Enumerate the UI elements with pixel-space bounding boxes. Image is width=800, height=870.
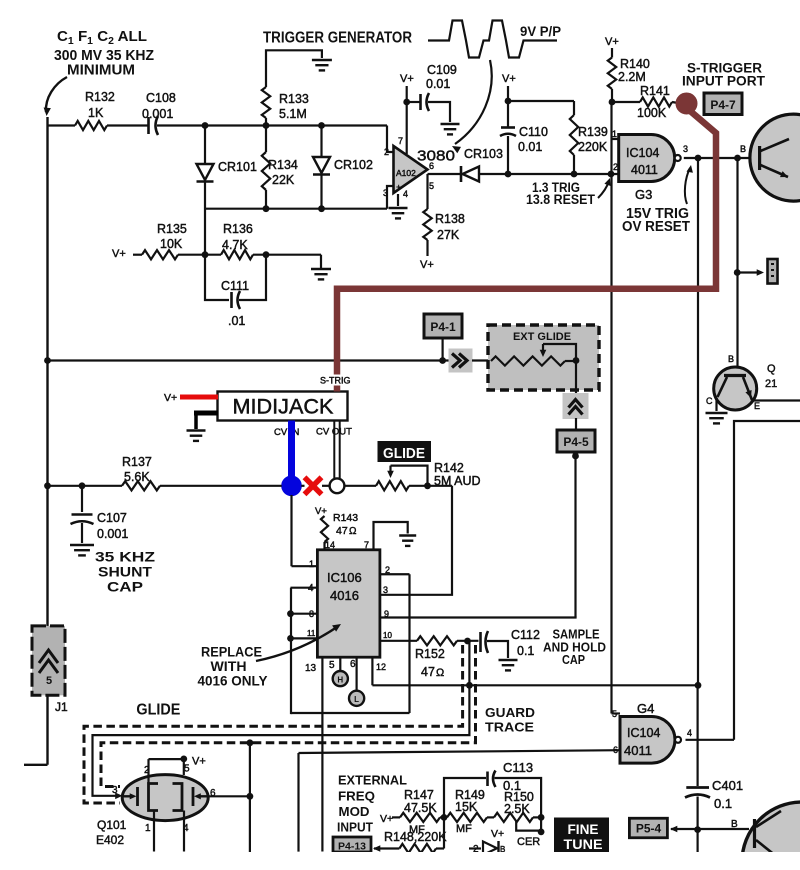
svg-text:EXT GLIDE: EXT GLIDE — [513, 331, 571, 343]
svg-text:CR103: CR103 — [464, 147, 503, 161]
svg-text:+: + — [396, 182, 401, 192]
svg-text:0.1: 0.1 — [714, 796, 732, 811]
svg-text:9V P/P: 9V P/P — [520, 24, 561, 39]
svg-text:Ω: Ω — [349, 526, 357, 537]
svg-text:FINE: FINE — [568, 822, 599, 837]
svg-text:V+: V+ — [192, 756, 206, 768]
svg-text:3080: 3080 — [417, 148, 455, 165]
svg-text:CER: CER — [517, 836, 540, 848]
svg-text:0.001: 0.001 — [97, 527, 128, 541]
svg-text:2.2M: 2.2M — [618, 70, 646, 84]
svg-text:5: 5 — [184, 764, 190, 775]
svg-text:3: 3 — [383, 585, 388, 595]
svg-text:E: E — [754, 401, 760, 411]
svg-text:E402: E402 — [96, 833, 124, 847]
svg-text:P4-1: P4-1 — [430, 320, 456, 334]
svg-text:R137: R137 — [122, 455, 152, 469]
svg-text:R141: R141 — [640, 84, 670, 98]
svg-text:C107: C107 — [97, 511, 127, 525]
svg-text:.01: .01 — [228, 314, 245, 328]
svg-text:1: 1 — [612, 129, 617, 139]
svg-text:3: 3 — [383, 188, 388, 198]
svg-text:3: 3 — [112, 785, 118, 796]
svg-text:15K: 15K — [455, 800, 478, 814]
svg-text:4011: 4011 — [631, 163, 658, 177]
svg-text:MIDIJACK: MIDIJACK — [233, 396, 334, 419]
svg-text:R148,220K: R148,220K — [384, 830, 447, 844]
svg-text:13: 13 — [305, 663, 317, 674]
svg-text:V+: V+ — [112, 248, 126, 260]
svg-text:CR101: CR101 — [218, 160, 257, 174]
svg-text:0.001: 0.001 — [142, 107, 173, 121]
svg-text:WITH: WITH — [211, 659, 247, 674]
svg-text:R134: R134 — [268, 158, 298, 172]
svg-text:47: 47 — [336, 525, 348, 537]
svg-text:V+: V+ — [420, 259, 434, 271]
svg-text:R143: R143 — [333, 512, 358, 524]
svg-text:4: 4 — [403, 189, 408, 199]
svg-text:C111: C111 — [221, 279, 249, 293]
svg-text:CR102: CR102 — [334, 158, 373, 172]
svg-text:B: B — [740, 144, 746, 154]
svg-text:47.5K: 47.5K — [404, 801, 437, 815]
svg-text:GUARD: GUARD — [485, 705, 535, 720]
svg-text:4016 ONLY: 4016 ONLY — [198, 674, 268, 689]
svg-text:R135: R135 — [157, 222, 187, 236]
svg-text:V+: V+ — [605, 36, 619, 48]
svg-text:SHUNT: SHUNT — [98, 564, 152, 580]
svg-text:21: 21 — [765, 378, 777, 390]
svg-text:P4-13: P4-13 — [338, 841, 366, 853]
svg-text:Q101: Q101 — [97, 818, 127, 832]
svg-text:P4-7: P4-7 — [710, 98, 736, 112]
svg-text:5: 5 — [429, 181, 434, 191]
svg-text:10: 10 — [383, 631, 392, 640]
svg-text:4: 4 — [687, 728, 692, 738]
svg-text:1K: 1K — [88, 106, 104, 120]
svg-text:R140: R140 — [620, 57, 650, 71]
svg-text:P4-5: P4-5 — [563, 435, 589, 449]
svg-text:R133: R133 — [279, 92, 309, 106]
svg-text:Ω: Ω — [436, 667, 444, 679]
svg-text:4011: 4011 — [624, 743, 652, 758]
svg-text:MINIMUM: MINIMUM — [67, 63, 135, 79]
svg-text:V+: V+ — [491, 828, 504, 840]
svg-text:C108: C108 — [146, 91, 176, 105]
svg-text:5: 5 — [329, 660, 335, 671]
svg-text:V+: V+ — [502, 73, 516, 85]
svg-text:L: L — [354, 695, 359, 704]
svg-text:H: H — [337, 676, 343, 685]
svg-text:4016: 4016 — [330, 588, 359, 603]
svg-text:4: 4 — [183, 823, 189, 834]
svg-text:100K: 100K — [637, 106, 667, 120]
svg-text:R139: R139 — [578, 125, 608, 139]
svg-text:R136: R136 — [223, 222, 253, 236]
svg-text:22K: 22K — [272, 173, 295, 187]
svg-text:2: 2 — [144, 765, 150, 776]
svg-text:REPLACE: REPLACE — [201, 645, 262, 660]
svg-text:B: B — [731, 819, 738, 830]
svg-text:6: 6 — [613, 745, 618, 755]
svg-text:IC104: IC104 — [627, 726, 660, 740]
svg-text:C113: C113 — [503, 760, 533, 775]
svg-text:G3: G3 — [635, 187, 652, 202]
svg-text:C109: C109 — [427, 63, 457, 77]
svg-text:3: 3 — [683, 144, 688, 154]
svg-text:C110: C110 — [519, 125, 548, 139]
svg-text:CV IN: CV IN — [274, 427, 299, 438]
svg-text:0.01: 0.01 — [518, 140, 542, 154]
svg-text:V+: V+ — [400, 73, 414, 85]
svg-text:5: 5 — [46, 675, 52, 687]
svg-text:4: 4 — [308, 583, 314, 594]
svg-text:R147: R147 — [404, 788, 434, 802]
svg-text:0.1: 0.1 — [517, 644, 534, 658]
svg-text:GLIDE: GLIDE — [383, 446, 425, 462]
svg-text:R152: R152 — [415, 647, 445, 661]
svg-text:5.1M: 5.1M — [279, 107, 307, 121]
svg-text:P5-4: P5-4 — [636, 822, 662, 836]
svg-text:G4: G4 — [637, 701, 654, 716]
svg-text:47: 47 — [421, 665, 435, 679]
svg-text:10K: 10K — [160, 237, 183, 251]
svg-text:220K: 220K — [578, 140, 608, 154]
svg-text:4.7K: 4.7K — [222, 238, 248, 252]
svg-text:27K: 27K — [437, 228, 460, 242]
svg-text:V+: V+ — [380, 813, 393, 825]
svg-text:6: 6 — [350, 659, 356, 670]
svg-text:5: 5 — [612, 709, 617, 719]
svg-text:R132: R132 — [85, 90, 115, 104]
svg-text:GLIDE: GLIDE — [136, 702, 180, 719]
svg-text:TRIGGER GENERATOR: TRIGGER GENERATOR — [263, 30, 412, 47]
svg-text:1: 1 — [145, 823, 151, 834]
svg-text:5M AUD: 5M AUD — [434, 474, 481, 488]
svg-text:11: 11 — [307, 629, 316, 638]
svg-text:V+: V+ — [164, 392, 177, 404]
svg-text:35 KHZ: 35 KHZ — [95, 549, 156, 565]
svg-text:S-TRIG: S-TRIG — [320, 376, 351, 386]
svg-text:1: 1 — [309, 559, 314, 569]
svg-text:9: 9 — [384, 609, 389, 619]
svg-text:MOD: MOD — [339, 804, 370, 819]
svg-text:Q: Q — [767, 363, 776, 375]
svg-text:R142: R142 — [434, 461, 464, 475]
svg-text:CAP: CAP — [107, 579, 143, 595]
svg-text:2.5K: 2.5K — [504, 802, 530, 816]
svg-text:C: C — [706, 396, 713, 406]
svg-text:EXTERNAL: EXTERNAL — [338, 773, 407, 788]
svg-text:FREQ: FREQ — [338, 789, 375, 804]
svg-text:TUNE: TUNE — [564, 837, 603, 852]
svg-text:IC104: IC104 — [626, 146, 659, 160]
svg-text:V+: V+ — [315, 506, 327, 517]
svg-text:A102: A102 — [396, 168, 416, 178]
svg-text:5.6K: 5.6K — [124, 470, 150, 484]
svg-text:7: 7 — [398, 136, 403, 146]
svg-text:0.01: 0.01 — [426, 77, 450, 91]
svg-text:J1: J1 — [55, 700, 68, 714]
svg-text:R138: R138 — [435, 212, 465, 226]
svg-text:8: 8 — [309, 609, 314, 619]
svg-text:C401: C401 — [712, 778, 743, 793]
svg-text:B: B — [728, 354, 734, 364]
svg-text:13.8 RESET: 13.8 RESET — [526, 192, 596, 207]
svg-text:CAP: CAP — [562, 652, 585, 667]
svg-text:2: 2 — [384, 147, 389, 157]
svg-text:2: 2 — [613, 162, 618, 172]
svg-text:INPUT: INPUT — [337, 820, 373, 835]
svg-text:TRACE: TRACE — [485, 720, 534, 735]
svg-text:IC106: IC106 — [327, 570, 362, 585]
svg-text:OV RESET: OV RESET — [622, 219, 690, 235]
svg-text:C112: C112 — [511, 628, 540, 642]
svg-text:12: 12 — [376, 662, 386, 672]
svg-text:INPUT PORT: INPUT PORT — [682, 74, 766, 89]
svg-text:MF: MF — [456, 823, 472, 835]
